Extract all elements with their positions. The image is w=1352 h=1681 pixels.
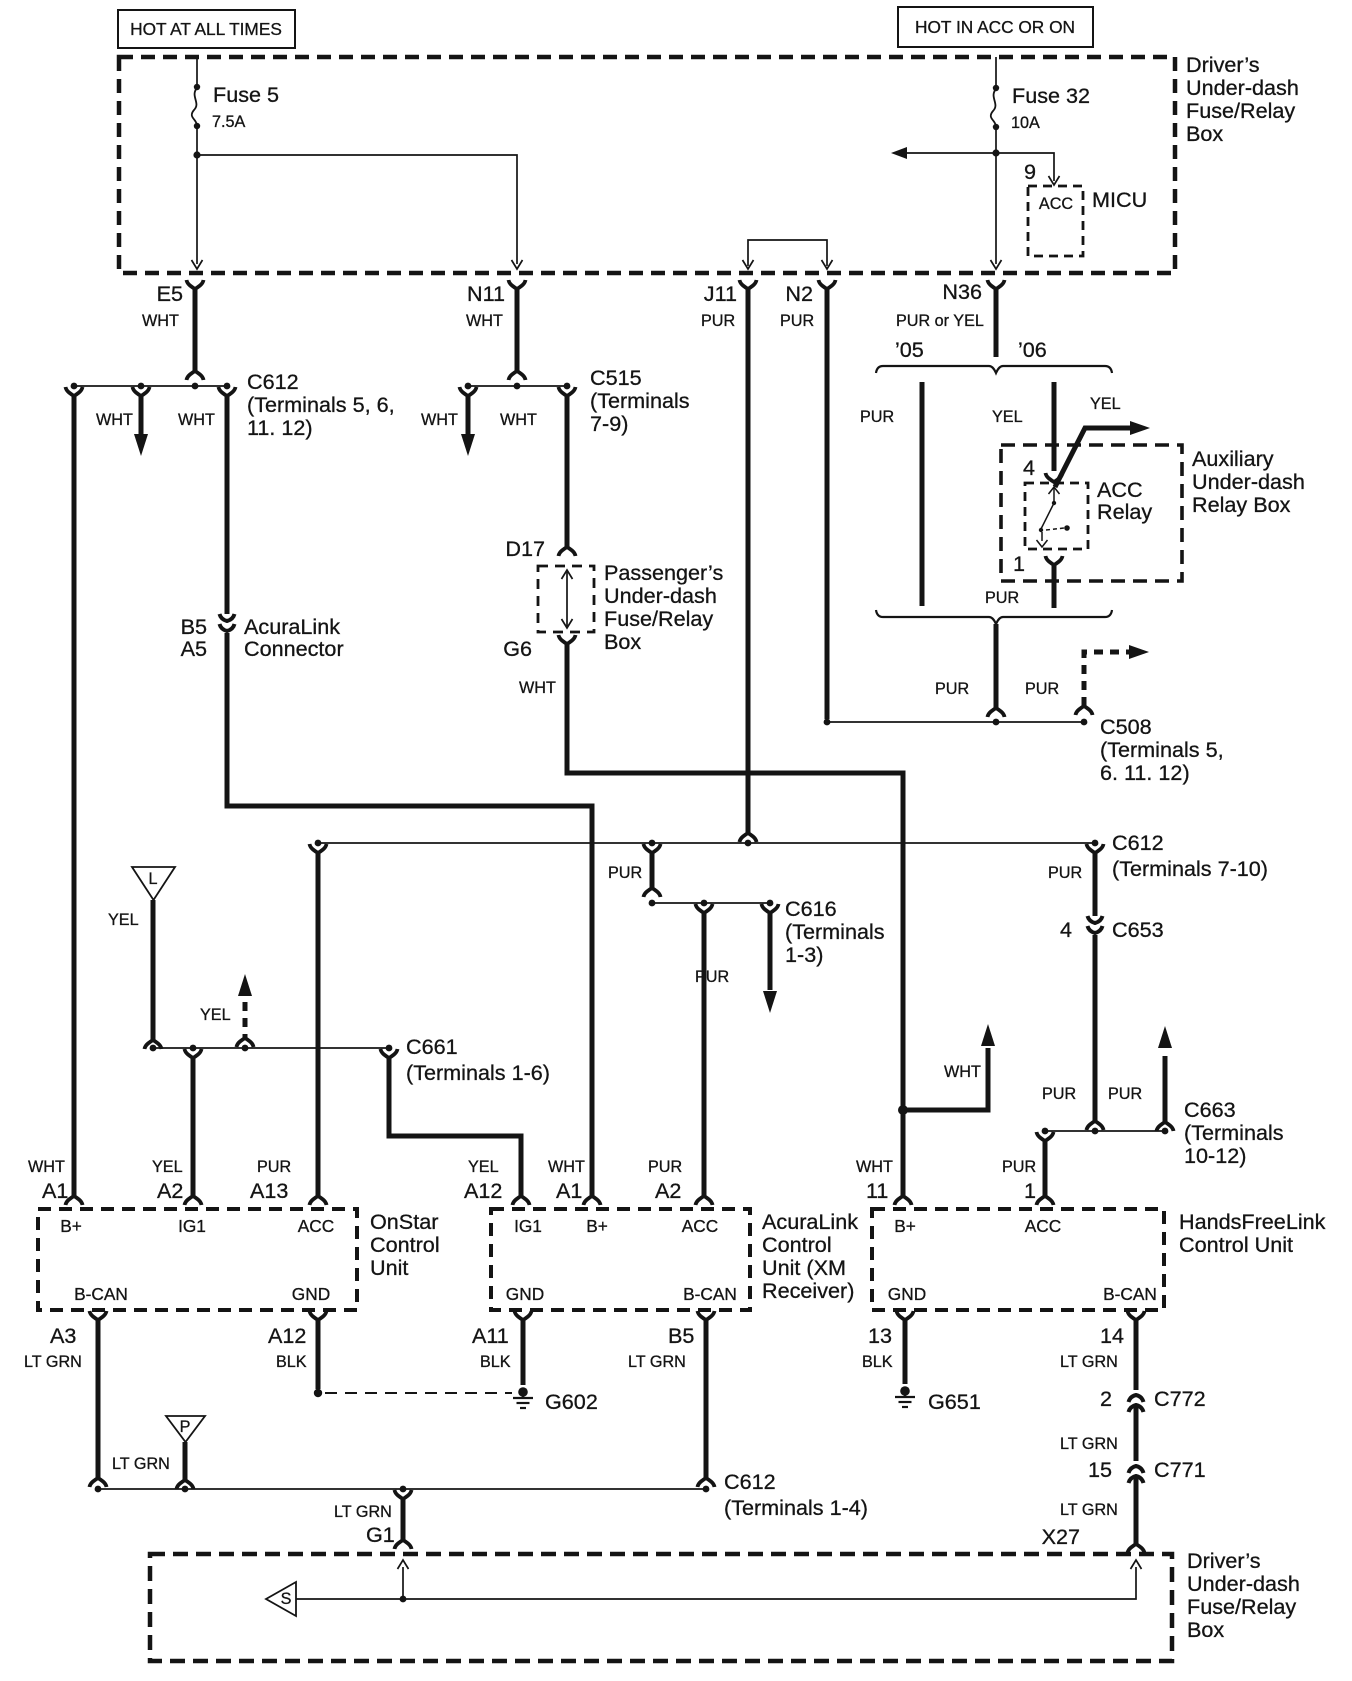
svg-text:L: L	[148, 870, 157, 888]
svg-text:(Terminals: (Terminals	[785, 919, 885, 944]
svg-text:LT GRN: LT GRN	[24, 1353, 82, 1371]
svg-text:GND: GND	[292, 1284, 330, 1304]
svg-text:Relay Box: Relay Box	[1192, 492, 1291, 517]
svg-text:(Terminals 1-4): (Terminals 1-4)	[724, 1495, 868, 1520]
svg-text:PUR: PUR	[1002, 1158, 1036, 1176]
svg-text:YEL: YEL	[1090, 395, 1121, 413]
svg-text:WHT: WHT	[28, 1158, 65, 1176]
svg-text:IG1: IG1	[514, 1216, 542, 1236]
svg-text:(Terminals: (Terminals	[1184, 1120, 1284, 1145]
svg-text:Fuse/Relay: Fuse/Relay	[1187, 1594, 1296, 1619]
svg-text:Control Unit: Control Unit	[1179, 1232, 1293, 1257]
svg-text:WHT: WHT	[944, 1063, 981, 1081]
svg-text:N36: N36	[942, 279, 982, 304]
svg-text:13: 13	[868, 1323, 892, 1348]
svg-text:G1: G1	[366, 1522, 395, 1547]
svg-text:BLK: BLK	[862, 1353, 893, 1371]
svg-text:B-CAN: B-CAN	[1103, 1284, 1157, 1304]
svg-text:A5: A5	[181, 636, 207, 661]
svg-text:ACC: ACC	[682, 1216, 719, 1236]
svg-text:PUR: PUR	[985, 589, 1019, 607]
svg-text:15: 15	[1088, 1457, 1112, 1482]
svg-text:C653: C653	[1112, 917, 1164, 942]
svg-text:A1: A1	[556, 1178, 582, 1203]
svg-text:S: S	[281, 1590, 292, 1608]
svg-text:Unit: Unit	[370, 1255, 408, 1280]
svg-text:B-CAN: B-CAN	[683, 1284, 737, 1304]
svg-text:WHT: WHT	[519, 679, 556, 697]
svg-text:Relay: Relay	[1097, 499, 1152, 524]
svg-text:LT GRN: LT GRN	[112, 1455, 170, 1473]
svg-text:(Terminals 5, 6,: (Terminals 5, 6,	[247, 392, 395, 417]
svg-text:11: 11	[866, 1178, 888, 1203]
svg-text:WHT: WHT	[178, 411, 215, 429]
svg-text:C616: C616	[785, 896, 837, 921]
svg-text:C508: C508	[1100, 714, 1152, 739]
svg-text:9: 9	[1024, 159, 1036, 184]
svg-text:G651: G651	[928, 1389, 981, 1414]
svg-text:A13: A13	[250, 1178, 288, 1203]
svg-text:PUR: PUR	[1048, 864, 1082, 882]
svg-text:Under-dash: Under-dash	[1192, 469, 1305, 494]
svg-text:Box: Box	[604, 629, 641, 654]
svg-text:PUR: PUR	[701, 312, 735, 330]
svg-text:HOT IN ACC OR ON: HOT IN ACC OR ON	[915, 17, 1075, 37]
svg-text:(Terminals 7-10): (Terminals 7-10)	[1112, 856, 1268, 881]
svg-text:B+: B+	[586, 1216, 608, 1236]
svg-text:11. 12): 11. 12)	[247, 415, 313, 440]
svg-text:1-3): 1-3)	[785, 942, 823, 967]
svg-text:Connector: Connector	[244, 636, 344, 661]
svg-text:Fuse 5: Fuse 5	[213, 82, 279, 107]
svg-text:1: 1	[1024, 1178, 1036, 1203]
svg-text:LT GRN: LT GRN	[1060, 1435, 1118, 1453]
svg-text:E5: E5	[157, 281, 183, 306]
svg-text:IG1: IG1	[178, 1216, 206, 1236]
svg-text:PUR: PUR	[648, 1158, 682, 1176]
svg-text:B+: B+	[60, 1216, 82, 1236]
svg-text:ACC: ACC	[1025, 1216, 1062, 1236]
svg-text:BLK: BLK	[480, 1353, 511, 1371]
svg-text:G602: G602	[545, 1389, 598, 1414]
svg-text:LT GRN: LT GRN	[1060, 1501, 1118, 1519]
svg-text:WHT: WHT	[96, 411, 133, 429]
svg-text:BLK: BLK	[276, 1353, 307, 1371]
svg-text:MICU: MICU	[1092, 187, 1147, 212]
svg-text:B-CAN: B-CAN	[74, 1284, 128, 1304]
svg-text:2: 2	[1100, 1386, 1112, 1411]
svg-text:A3: A3	[50, 1323, 76, 1348]
svg-text:PUR: PUR	[1025, 680, 1059, 698]
svg-text:Driver’s: Driver’s	[1187, 1548, 1261, 1573]
svg-text:PUR: PUR	[935, 680, 969, 698]
svg-text:C612: C612	[247, 369, 299, 394]
svg-text:WHT: WHT	[500, 411, 537, 429]
svg-text:Fuse/Relay: Fuse/Relay	[1186, 98, 1295, 123]
svg-text:B+: B+	[894, 1216, 916, 1236]
svg-text:Driver’s: Driver’s	[1186, 52, 1260, 77]
svg-text:X27: X27	[1042, 1524, 1080, 1549]
svg-text:10A: 10A	[1011, 114, 1040, 132]
svg-text:J11: J11	[704, 281, 737, 306]
svg-text:14: 14	[1100, 1323, 1124, 1348]
svg-text:WHT: WHT	[856, 1158, 893, 1176]
svg-text:YEL: YEL	[108, 911, 139, 929]
svg-text:N2: N2	[785, 281, 813, 306]
svg-text:YEL: YEL	[992, 408, 1023, 426]
svg-text:YEL: YEL	[152, 1158, 183, 1176]
svg-text:B5: B5	[668, 1323, 694, 1348]
svg-text:4: 4	[1023, 455, 1035, 480]
svg-text:YEL: YEL	[200, 1006, 231, 1024]
svg-text:PUR: PUR	[1108, 1085, 1142, 1103]
svg-text:PUR: PUR	[780, 312, 814, 330]
svg-text:WHT: WHT	[548, 1158, 585, 1176]
svg-text:C612: C612	[724, 1469, 776, 1494]
svg-text:C772: C772	[1154, 1386, 1206, 1411]
svg-text:A1: A1	[42, 1178, 68, 1203]
svg-text:A12: A12	[268, 1323, 306, 1348]
svg-text:(Terminals: (Terminals	[590, 388, 690, 413]
svg-text:A2: A2	[655, 1178, 681, 1203]
svg-text:Fuse/Relay: Fuse/Relay	[604, 606, 713, 631]
svg-text:ACC: ACC	[298, 1216, 335, 1236]
svg-text:PUR: PUR	[1042, 1085, 1076, 1103]
svg-text:GND: GND	[888, 1284, 926, 1304]
svg-text:PUR: PUR	[608, 864, 642, 882]
svg-text:A2: A2	[157, 1178, 183, 1203]
svg-text:HOT AT ALL TIMES: HOT AT ALL TIMES	[130, 19, 282, 39]
svg-text:G6: G6	[503, 636, 532, 661]
svg-text:D17: D17	[505, 536, 545, 561]
svg-text:WHT: WHT	[421, 411, 458, 429]
svg-text:PUR: PUR	[860, 408, 894, 426]
svg-text:YEL: YEL	[468, 1158, 499, 1176]
svg-text:OnStar: OnStar	[370, 1209, 438, 1234]
svg-text:C663: C663	[1184, 1097, 1236, 1122]
svg-text:Control: Control	[370, 1232, 440, 1257]
svg-text:Fuse 32: Fuse 32	[1012, 83, 1090, 108]
svg-text:ACC: ACC	[1039, 195, 1073, 213]
svg-text:1: 1	[1013, 551, 1025, 576]
svg-text:WHT: WHT	[142, 312, 179, 330]
svg-text:C771: C771	[1154, 1457, 1206, 1482]
svg-text:10-12): 10-12)	[1184, 1143, 1246, 1168]
svg-text:PUR: PUR	[695, 968, 729, 986]
svg-text:7-9): 7-9)	[590, 411, 628, 436]
svg-text:WHT: WHT	[466, 312, 503, 330]
svg-text:GND: GND	[506, 1284, 544, 1304]
svg-text:(Terminals 5,: (Terminals 5,	[1100, 737, 1224, 762]
svg-text:Receiver): Receiver)	[762, 1278, 854, 1303]
svg-text:LT GRN: LT GRN	[1060, 1353, 1118, 1371]
svg-text:PUR or YEL: PUR or YEL	[896, 312, 984, 330]
svg-text:A11: A11	[472, 1323, 509, 1348]
svg-text:’05: ’05	[895, 337, 924, 362]
svg-text:P: P	[180, 1418, 191, 1436]
svg-text:LT GRN: LT GRN	[334, 1503, 392, 1521]
svg-text:A12: A12	[464, 1178, 502, 1203]
svg-text:C515: C515	[590, 365, 642, 390]
svg-text:Box: Box	[1186, 121, 1223, 146]
svg-text:Control: Control	[762, 1232, 832, 1257]
svg-text:C661: C661	[406, 1034, 458, 1059]
svg-text:C612: C612	[1112, 830, 1164, 855]
svg-text:6. 11. 12): 6. 11. 12)	[1100, 760, 1190, 785]
svg-text:4: 4	[1060, 917, 1072, 942]
svg-text:HandsFreeLink: HandsFreeLink	[1179, 1209, 1326, 1234]
svg-text:AcuraLink: AcuraLink	[762, 1209, 858, 1234]
svg-text:Under-dash: Under-dash	[1187, 1571, 1300, 1596]
svg-text:LT GRN: LT GRN	[628, 1353, 686, 1371]
svg-text:Auxiliary: Auxiliary	[1192, 446, 1274, 471]
svg-text:Unit (XM: Unit (XM	[762, 1255, 846, 1280]
svg-text:Box: Box	[1187, 1617, 1224, 1642]
svg-text:7.5A: 7.5A	[212, 113, 246, 131]
svg-text:Passenger’s: Passenger’s	[604, 560, 723, 585]
svg-text:Under-dash: Under-dash	[604, 583, 717, 608]
svg-text:’06: ’06	[1018, 337, 1047, 362]
svg-text:Under-dash: Under-dash	[1186, 75, 1299, 100]
svg-text:(Terminals 1-6): (Terminals 1-6)	[406, 1060, 550, 1085]
svg-text:PUR: PUR	[257, 1158, 291, 1176]
svg-text:N11: N11	[467, 281, 505, 306]
